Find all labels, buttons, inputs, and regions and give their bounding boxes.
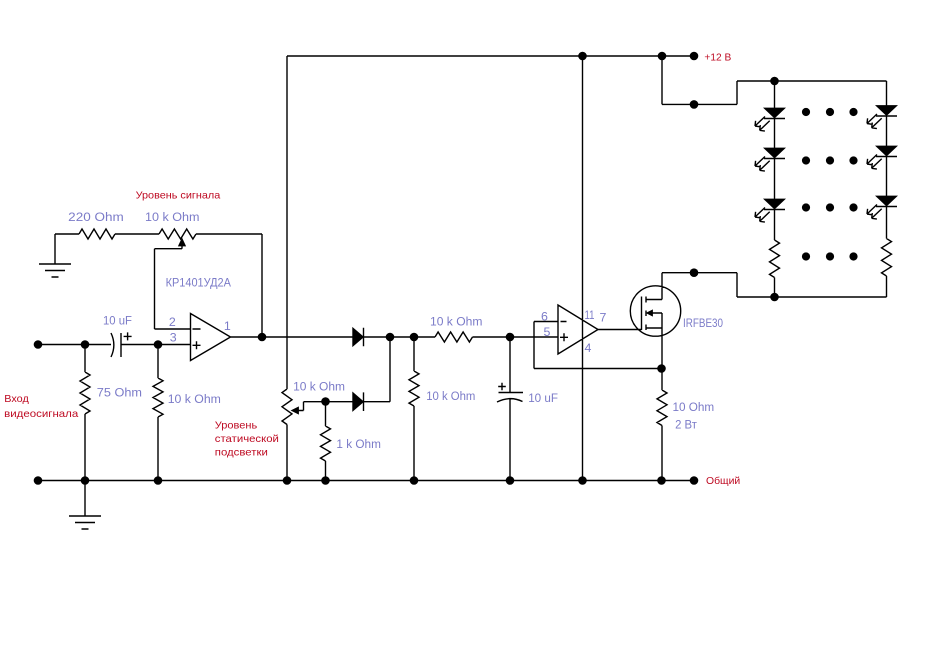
svg-text:220 Ohm: 220 Ohm — [68, 210, 124, 224]
svg-text:10 k Ohm: 10 k Ohm — [145, 210, 200, 224]
svg-text:Общий: Общий — [706, 475, 740, 487]
svg-text:10 k Ohm: 10 k Ohm — [293, 379, 345, 393]
svg-text:75 Ohm: 75 Ohm — [97, 386, 142, 400]
svg-text:4: 4 — [585, 341, 592, 355]
svg-text:10 k Ohm: 10 k Ohm — [426, 389, 475, 403]
svg-text:7: 7 — [600, 311, 607, 325]
svg-text:2 Вт: 2 Вт — [675, 418, 697, 432]
svg-text:1 k Ohm: 1 k Ohm — [336, 437, 381, 451]
svg-text:видеосигнала: видеосигнала — [4, 408, 78, 420]
svg-text:+12 В: +12 В — [704, 52, 731, 64]
svg-text:Уровень: Уровень — [215, 420, 258, 432]
svg-text:КР1401УД2А: КР1401УД2А — [166, 276, 232, 290]
svg-text:статической: статической — [215, 433, 279, 445]
svg-text:3: 3 — [170, 331, 177, 345]
svg-text:подсветки: подсветки — [215, 447, 268, 459]
svg-text:1: 1 — [224, 319, 231, 333]
svg-text:10 uF: 10 uF — [528, 391, 558, 405]
svg-text:10 Ohm: 10 Ohm — [673, 400, 715, 414]
svg-text:2: 2 — [169, 315, 176, 329]
svg-text:IRFBE30: IRFBE30 — [683, 316, 723, 330]
svg-text:Вход: Вход — [4, 393, 29, 405]
svg-text:10 uF: 10 uF — [103, 313, 132, 327]
svg-text:6: 6 — [541, 310, 548, 324]
svg-text:Уровень сигнала: Уровень сигнала — [136, 190, 221, 202]
svg-text:10 k Ohm: 10 k Ohm — [168, 392, 221, 406]
svg-text:11: 11 — [585, 308, 595, 322]
svg-text:5: 5 — [544, 325, 551, 339]
svg-text:10 k Ohm: 10 k Ohm — [430, 315, 482, 329]
